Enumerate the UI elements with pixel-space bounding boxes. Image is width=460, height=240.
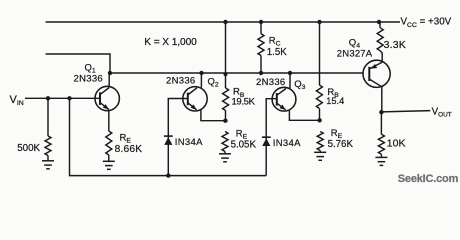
resistor 10K <box>380 112 382 134</box>
node: Q4 collector / V_OUT / 10K junction <box>379 110 383 114</box>
svg-text:500K: 500K <box>17 143 40 154</box>
svg-text:2N336: 2N336 <box>74 73 104 84</box>
node: Q3 collector junction <box>288 71 292 75</box>
transistor Q1 <box>95 86 119 110</box>
wire: to V_OUT <box>381 111 430 112</box>
svg-text:IN34A: IN34A <box>175 137 203 148</box>
svg-text:5.76K: 5.76K <box>328 139 354 150</box>
wire: Q3 emitter to R_E3 node <box>289 110 319 120</box>
node: top rail / 3.3K lead <box>377 20 381 24</box>
node: bus / R_B1 crossing junction <box>224 72 228 76</box>
wire: R_B1 top lead from rail <box>225 22 227 88</box>
wire: Q3 base L-wire / D2 anode line <box>266 99 277 176</box>
node: input / 500K junction <box>46 96 50 100</box>
wire: Q4 collector lead down <box>381 87 383 113</box>
wire: VCC top rail <box>46 21 401 23</box>
node: R_C bottom junction <box>259 71 263 75</box>
wire: Q2 emitter to R_E2 node <box>201 110 226 121</box>
node: top rail / R_C lead <box>259 20 263 24</box>
resistor R_B 15.4 <box>316 85 322 109</box>
svg-text:15.4: 15.4 <box>326 96 344 106</box>
resistor R_E 5.05K <box>222 132 228 152</box>
svg-text:19.5K: 19.5K <box>232 97 256 108</box>
node: top rail / R_B2 lead <box>317 20 321 24</box>
transistor Q4 (PNP) <box>363 60 390 87</box>
wire: Q3 collector lead <box>289 74 291 89</box>
node: Q3 emitter / R_B2 / R_E3 junction <box>317 118 321 122</box>
svg-text:SeekIC.com: SeekIC.com <box>398 173 459 185</box>
svg-text:K = X 1,000: K = X 1,000 <box>144 37 197 48</box>
ground (R_E 5.05K) <box>224 152 226 154</box>
svg-text:10K: 10K <box>387 138 406 150</box>
svg-text:3.3K: 3.3K <box>384 39 406 51</box>
wire: Q2 collector lead <box>200 74 202 88</box>
resistor R_B 19.5K <box>223 88 229 111</box>
transistor Q2 <box>183 87 207 111</box>
node: Q1 collector junction <box>108 71 112 75</box>
svg-text:8.66K: 8.66K <box>115 144 143 155</box>
wire: collector bus to Q4 base <box>110 72 363 74</box>
wire: Q1 collector lead <box>108 74 110 88</box>
wire: Q2 base L-wire / D1 anode line <box>168 99 188 176</box>
svg-text:2N336: 2N336 <box>166 76 196 87</box>
wire: Q4 emitter lead up to 3.3K <box>380 51 382 63</box>
node: Q2 collector junction <box>199 71 203 75</box>
svg-text:2N327A: 2N327A <box>337 49 373 60</box>
node: bottom rail / D1 junction <box>166 173 170 177</box>
wire: upper-left feed to Q1 collector <box>46 54 111 72</box>
svg-text:1.5K: 1.5K <box>267 47 287 58</box>
ground (10K) <box>380 154 382 157</box>
svg-text:2N336: 2N336 <box>256 77 286 88</box>
resistor R_C 1.5K <box>260 22 262 34</box>
resistor 3.3K <box>379 22 381 28</box>
ground (500K) <box>47 156 49 161</box>
wire: input from V_IN to Q1 base <box>25 97 100 99</box>
wire: Q1 emitter lead <box>108 110 110 132</box>
diode D2 1N34A <box>262 136 271 138</box>
resistor R_E 5.76K <box>317 132 323 151</box>
diode D1 1N34A <box>164 135 173 137</box>
svg-text:IN34A: IN34A <box>273 138 301 149</box>
node: Q2 emitter / R_B1 / R_E2 junction <box>223 119 227 123</box>
node: top rail / R_B1 lead <box>223 20 227 24</box>
svg-text:5.05K: 5.05K <box>231 139 257 150</box>
transistor Q3 <box>272 87 296 111</box>
ground (R_E 5.76K) <box>319 151 321 153</box>
wire: branch down to bottom rail <box>70 98 267 175</box>
resistor R_E 8.66K <box>106 131 112 155</box>
resistor 500K <box>45 136 51 156</box>
wire: R_B2 lead from rail (crosses bus) <box>319 22 321 85</box>
ground (R_E 8.66K) <box>108 155 110 161</box>
node: input / ground-branch junction <box>67 96 71 100</box>
resistor 500K lead <box>47 98 49 136</box>
